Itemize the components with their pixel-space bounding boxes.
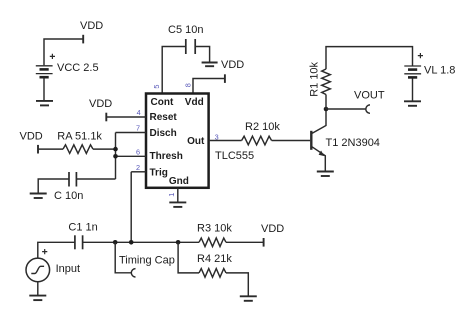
wire C1 to R3 (timing node rail) xyxy=(83,241,199,243)
svg-text:Trig: Trig xyxy=(150,168,168,179)
svg-text:8: 8 xyxy=(184,83,193,87)
junction node timing-cap branch xyxy=(113,240,118,245)
svg-text:VOUT: VOUT xyxy=(354,90,385,102)
transistor T1 emitter arrow xyxy=(319,151,325,157)
op-amp U1 TLC555 chip body xyxy=(146,94,209,188)
ground (pin 1) xyxy=(169,202,186,207)
wire pin 8 Vdd to VDD terminal xyxy=(193,74,225,93)
svg-text:2: 2 xyxy=(136,163,140,172)
wire R1 top across to VL battery xyxy=(326,47,413,70)
ground (C 10n) xyxy=(30,194,47,199)
capacitor C xyxy=(69,172,76,187)
wire node to C right plate xyxy=(77,178,116,180)
wire node vertical (pin7 to C) xyxy=(115,133,117,180)
svg-text:Out: Out xyxy=(187,136,205,147)
wire pin 3 Out to R2 xyxy=(209,140,242,142)
svg-text:C 10n: C 10n xyxy=(54,190,83,202)
svg-text:R3 10k: R3 10k xyxy=(197,223,232,235)
svg-text:VDD: VDD xyxy=(80,20,103,32)
svg-text:Gnd: Gnd xyxy=(169,176,189,187)
svg-text:VDD: VDD xyxy=(89,98,112,110)
svg-text:7: 7 xyxy=(136,124,140,133)
svg-text:C1 1n: C1 1n xyxy=(68,221,97,233)
battery VL xyxy=(404,53,423,77)
wire battery VL to ground xyxy=(412,78,414,101)
wire pin 7 Disch xyxy=(116,132,147,134)
svg-text:VDD: VDD xyxy=(221,59,244,71)
junction node collector xyxy=(324,107,329,112)
capacitor C5 xyxy=(186,39,195,54)
svg-text:TLC555: TLC555 xyxy=(215,150,254,162)
svg-text:R2 10k: R2 10k xyxy=(245,121,280,133)
battery VCC xyxy=(36,54,55,77)
svg-text:RA 51.1k: RA 51.1k xyxy=(57,130,102,142)
transistor T1 emitter xyxy=(311,146,325,171)
ground (R4) xyxy=(240,296,257,301)
svg-text:R4 21k: R4 21k xyxy=(197,253,232,265)
junction node RA/Disch xyxy=(113,147,118,152)
wire C5 right plate to VDD rail xyxy=(195,47,209,63)
svg-text:VCC 2.5: VCC 2.5 xyxy=(57,62,99,74)
resistor R3 xyxy=(199,238,226,247)
ground (below VCC) xyxy=(36,101,53,106)
junction node R4 branch xyxy=(176,240,181,245)
wire input to C1 left plate xyxy=(38,242,75,258)
wire VDD terminal to RA xyxy=(38,145,63,154)
svg-text:T1 2N3904: T1 2N3904 xyxy=(326,137,380,149)
svg-text:6: 6 xyxy=(136,147,140,156)
wire timing node to Timing Cap port xyxy=(115,242,131,272)
junction node Thresh xyxy=(113,154,118,159)
wire C left plate to ground xyxy=(38,179,69,193)
svg-text:Input: Input xyxy=(56,263,80,275)
wire pin 2 Trig xyxy=(131,171,146,173)
wire VDD terminal to battery VCC top xyxy=(44,35,83,65)
svg-text:Vdd: Vdd xyxy=(185,97,204,108)
wire R4 to ground xyxy=(226,273,248,296)
svg-text:3: 3 xyxy=(215,132,219,141)
source Input circle xyxy=(26,258,50,282)
wire R3 to VDD terminal xyxy=(226,238,264,247)
svg-text:C5 10n: C5 10n xyxy=(168,24,203,36)
ground (VL) xyxy=(404,101,421,106)
wire R2 to base xyxy=(272,140,311,142)
capacitor C1 xyxy=(75,235,83,249)
wire collector node to R1 xyxy=(325,95,327,110)
svg-text:VDD: VDD xyxy=(20,131,43,143)
svg-text:Timing Cap: Timing Cap xyxy=(119,255,175,267)
transistor T1 base bar xyxy=(310,131,312,150)
wire collector node to VOUT port xyxy=(326,108,366,110)
svg-text:R1 10k: R1 10k xyxy=(308,61,320,96)
svg-text:Cont: Cont xyxy=(151,97,174,108)
ground (Input) xyxy=(29,296,46,301)
resistor R2 xyxy=(242,136,272,145)
wire RA to node xyxy=(93,148,116,150)
source Input waveform xyxy=(31,266,44,273)
wire Trig drop to timing node xyxy=(130,172,132,243)
svg-text:VL 1.8: VL 1.8 xyxy=(424,64,455,76)
resistor R4 xyxy=(199,269,226,278)
svg-text:1: 1 xyxy=(167,193,176,197)
port VOUT xyxy=(366,105,370,113)
wire Input to ground xyxy=(37,282,39,296)
plus (input) xyxy=(42,249,47,254)
wire pin 4 Reset with VDD terminal xyxy=(106,113,146,122)
svg-text:Thresh: Thresh xyxy=(150,151,183,162)
wire R4 branch down and to R4 xyxy=(178,242,199,273)
wire battery VCC to ground xyxy=(43,78,45,101)
VDD rail symbol (near C5) xyxy=(202,63,218,67)
svg-text:5: 5 xyxy=(152,85,161,89)
svg-text:Reset: Reset xyxy=(150,112,178,123)
resistor R1 xyxy=(322,69,331,95)
svg-text:Disch: Disch xyxy=(150,128,177,139)
wire pin 6 Thresh xyxy=(116,155,147,157)
transistor T1 collector xyxy=(311,109,326,134)
port Timing Cap xyxy=(131,269,135,277)
svg-text:4: 4 xyxy=(137,108,141,117)
wire pin 1 Gnd to ground xyxy=(177,188,179,202)
ground (emitter) xyxy=(317,172,334,177)
svg-text:VDD: VDD xyxy=(261,223,284,235)
junction node trig branch xyxy=(129,240,134,245)
resistor RA xyxy=(63,145,93,154)
wire C5 left plate to pin 5 xyxy=(162,47,185,94)
